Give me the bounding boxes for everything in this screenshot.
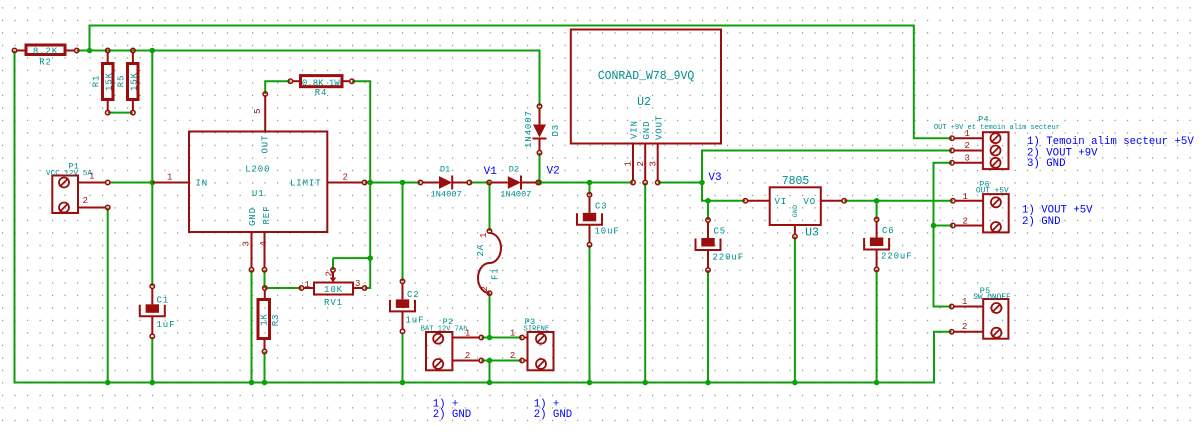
wire wiper link: [333, 257, 370, 259]
svg-text:2: 2: [962, 322, 968, 332]
wire to U3 VI: [708, 200, 745, 202]
wire C6 to GND rail: [876, 270, 878, 383]
svg-text:2: 2: [510, 351, 516, 361]
svg-text:3: 3: [649, 161, 659, 167]
junction: [367, 255, 373, 261]
wire P1.2 to GND rail: [107, 208, 109, 383]
connector P4: [934, 115, 1060, 170]
svg-text:CONRAD_W78_9VQ: CONRAD_W78_9VQ: [598, 70, 695, 83]
pin 3 GND: [251, 232, 253, 268]
wire D3 to V2 node: [539, 153, 541, 183]
wire LIMIT down: [369, 183, 371, 259]
junction: [642, 380, 648, 386]
svg-text:RV1: RV1: [324, 298, 343, 308]
fuse F1: [476, 229, 501, 296]
pin 2 GND: [644, 144, 646, 181]
node LIMIT: [367, 180, 373, 186]
svg-text:OUT +9V et temoin alim secteur: OUT +9V et temoin alim secteur: [934, 124, 1060, 132]
resistor R5: [117, 48, 140, 115]
wire P2.1-P3.1: [481, 337, 522, 339]
svg-text:1N4007: 1N4007: [524, 110, 534, 148]
svg-text:2: 2: [83, 196, 89, 206]
pin 3 VOUT: [657, 144, 659, 181]
svg-text:R3: R3: [271, 314, 281, 327]
junction: [874, 198, 880, 204]
pin VO: [821, 200, 842, 202]
wire R3 top to RV1 pin1: [265, 287, 302, 289]
wire U1 GND pin to rail: [251, 270, 253, 383]
svg-text:2A: 2A: [476, 244, 486, 257]
svg-text:VOUT: VOUT: [654, 115, 664, 140]
wire top rail to P4 pin1: [90, 26, 953, 139]
svg-text:2) GND: 2) GND: [433, 409, 471, 421]
connector P6: [951, 179, 1009, 232]
wire to C3: [589, 183, 591, 195]
svg-text:2: 2: [965, 141, 971, 151]
svg-text:LIMIT: LIMIT: [290, 179, 322, 189]
svg-text:VCC 12V 5A: VCC 12V 5A: [46, 170, 92, 178]
wire to P6.2: [934, 225, 953, 227]
junction: [587, 380, 593, 386]
connector P5: [950, 286, 1011, 339]
wire D1 to D2: [470, 182, 490, 184]
junction: [587, 180, 593, 186]
svg-text:1) Temoin alim secteur +5V: 1) Temoin alim secteur +5V: [1027, 136, 1194, 148]
wire R2 to D3 top: [77, 51, 540, 107]
svg-text:F1: F1: [491, 267, 501, 280]
svg-text:2: 2: [465, 351, 471, 361]
junction: [249, 380, 255, 386]
capacitor C6: [864, 217, 912, 271]
svg-text:L200: L200: [245, 165, 270, 175]
wire VCC drop: [151, 51, 153, 183]
svg-text:U2: U2: [637, 96, 651, 109]
pin 2 LIMIT: [327, 182, 362, 184]
wire V3 down: [702, 183, 708, 201]
capacitor C3: [577, 193, 620, 247]
svg-text:OUT +5V: OUT +5V: [976, 187, 1009, 195]
svg-text:1: 1: [510, 329, 516, 339]
junction: [487, 335, 493, 341]
svg-text:1N4007: 1N4007: [431, 190, 462, 200]
wire R4 to LIMIT node: [352, 81, 370, 182]
wire fuse to P2/P3 row: [489, 293, 491, 337]
svg-text:1uF: 1uF: [406, 316, 425, 326]
junction: [874, 380, 880, 386]
svg-text:GND: GND: [248, 207, 258, 226]
wire V1 to fuse: [489, 183, 491, 232]
svg-text:1) VOUT +5V: 1) VOUT +5V: [1022, 205, 1093, 217]
svg-text:8.2K: 8.2K: [33, 47, 58, 57]
junction: [400, 180, 406, 186]
connector P1: [46, 162, 110, 214]
svg-text:C1: C1: [157, 296, 170, 306]
junction: [487, 380, 493, 386]
svg-text:220uF: 220uF: [713, 253, 745, 263]
pin GND: [794, 225, 796, 234]
svg-text:V3: V3: [708, 172, 721, 184]
svg-text:2: 2: [480, 286, 490, 292]
wire C5 to GND rail: [707, 270, 709, 383]
wire to C1: [151, 183, 153, 287]
wire to GND rail: [489, 361, 491, 383]
resistor R4: [288, 76, 354, 98]
svg-text:2: 2: [963, 217, 969, 227]
svg-text:C3: C3: [595, 202, 608, 212]
wire to C5: [707, 201, 709, 220]
svg-text:2: 2: [324, 271, 334, 277]
junction: [105, 380, 111, 386]
svg-text:220uF: 220uF: [881, 252, 913, 262]
svg-text:BAT 12V 7Ah: BAT 12V 7Ah: [421, 326, 468, 334]
diode D2: [487, 164, 540, 199]
svg-text:1uF: 1uF: [157, 320, 176, 330]
junction: [705, 198, 711, 204]
wire U3 VO to P6.1: [844, 200, 953, 202]
svg-text:V2: V2: [547, 166, 560, 178]
wire U3 GND to rail: [794, 237, 796, 383]
pin 1 IN: [152, 182, 189, 184]
svg-text:4: 4: [259, 241, 269, 247]
wire C3 to GND rail: [589, 245, 591, 383]
svg-text:GND: GND: [642, 121, 652, 140]
resistor R2: [12, 45, 79, 68]
connector P2 battery: [421, 317, 484, 370]
op-amp U1 L200: [152, 92, 366, 272]
junction: [931, 223, 937, 229]
junction: [400, 380, 406, 386]
wire U2 GND to rail: [644, 183, 646, 383]
wire P4.3 GND drop to P5.1: [934, 163, 953, 307]
svg-text:1: 1: [962, 297, 968, 307]
capacitor C5: [696, 218, 745, 272]
wire to RV1 wiper: [332, 258, 334, 270]
svg-text:IN: IN: [196, 179, 209, 189]
svg-text:7805: 7805: [782, 175, 810, 188]
svg-text:C5: C5: [714, 227, 727, 237]
wire V3 to P4 pin2: [702, 151, 952, 183]
capacitor C2: [390, 279, 424, 333]
node VCC top: [87, 48, 93, 54]
svg-text:3) GND: 3) GND: [1027, 158, 1065, 170]
wire P2.2-P3.2: [481, 360, 522, 362]
node V3: [699, 180, 705, 186]
svg-text:VIN: VIN: [630, 120, 640, 139]
svg-text:R5: R5: [117, 75, 127, 88]
svg-text:5: 5: [253, 108, 263, 114]
svg-text:D2: D2: [509, 164, 519, 174]
wire C2 to GND rail: [402, 333, 404, 383]
regulator U3 7805: [743, 175, 846, 240]
svg-text:15K: 15K: [104, 72, 114, 91]
wire RV1 pin3 to LIMIT node: [365, 258, 371, 288]
svg-text:3: 3: [965, 153, 971, 163]
IC U2 CONRAD_W78_9VQ: [571, 30, 721, 185]
svg-text:2: 2: [636, 161, 646, 167]
pin 4 REF: [264, 232, 266, 268]
svg-text:VO: VO: [803, 197, 816, 207]
svg-text:2: 2: [343, 173, 349, 183]
svg-text:15K: 15K: [130, 72, 140, 91]
svg-text:R4: R4: [315, 88, 328, 98]
junction: [792, 380, 798, 386]
svg-text:D1: D1: [440, 164, 450, 174]
pin 1 VIN: [632, 144, 634, 181]
wire P1.1 to IN node: [110, 182, 153, 184]
svg-text:2) GND: 2) GND: [534, 409, 572, 421]
svg-text:C2: C2: [407, 290, 420, 300]
svg-text:1: 1: [963, 192, 969, 202]
svg-text:OUT: OUT: [260, 135, 270, 154]
resistor R1: [91, 48, 114, 115]
svg-text:REF: REF: [262, 206, 272, 225]
junction: [262, 380, 268, 386]
junction: [705, 380, 711, 386]
pin 5 OUT: [264, 96, 266, 132]
capacitor C1: [140, 284, 176, 338]
svg-text:1: 1: [479, 232, 489, 238]
svg-text:SIRENE: SIRENE: [524, 326, 550, 334]
svg-text:C6: C6: [882, 226, 895, 236]
svg-text:R1: R1: [91, 75, 101, 88]
wire to C6: [876, 201, 878, 220]
wire R3 to GND rail: [264, 352, 266, 383]
wire REF to R3: [264, 270, 266, 288]
svg-text:GND: GND: [792, 205, 799, 218]
wire R1-R5 bottoms: [108, 112, 133, 114]
svg-text:1: 1: [624, 161, 634, 167]
diode D3: [524, 104, 561, 155]
junction: [150, 48, 156, 54]
junction: [487, 358, 493, 364]
svg-text:2) GND: 2) GND: [1022, 216, 1060, 228]
junction: [150, 380, 156, 386]
pin VI: [748, 200, 770, 202]
wire U2 VOUT to V3 node: [658, 182, 702, 184]
wire C1 to GND rail: [151, 337, 153, 383]
resistor R3: [258, 286, 281, 354]
wire OUT pin to R4: [265, 81, 290, 94]
diode D1: [418, 164, 471, 199]
wire to C2: [402, 183, 404, 282]
node IN: [150, 180, 156, 186]
svg-text:1N4007: 1N4007: [500, 190, 531, 200]
svg-text:D3: D3: [551, 124, 561, 137]
svg-text:SW ONOFF: SW ONOFF: [973, 294, 1011, 302]
svg-text:U1: U1: [252, 189, 265, 199]
potentiometer RV1: [299, 268, 367, 308]
wire D2 to U2 VIN: [538, 182, 633, 184]
svg-text:1K: 1K: [260, 313, 270, 326]
svg-text:1: 1: [305, 280, 311, 290]
node V2: [537, 180, 543, 186]
svg-text:10uF: 10uF: [595, 227, 620, 237]
svg-text:R2: R2: [39, 58, 52, 68]
svg-text:V1: V1: [484, 166, 498, 178]
wire GND bottom rail: [15, 51, 952, 383]
svg-text:3: 3: [355, 279, 361, 289]
svg-text:U3: U3: [805, 227, 819, 240]
connector P3 sirene: [510, 317, 554, 370]
svg-text:3: 3: [242, 241, 252, 247]
svg-text:VI: VI: [775, 197, 788, 207]
wire LIMIT to D1: [365, 182, 421, 184]
svg-text:1: 1: [167, 173, 173, 183]
svg-text:10K: 10K: [324, 285, 343, 295]
